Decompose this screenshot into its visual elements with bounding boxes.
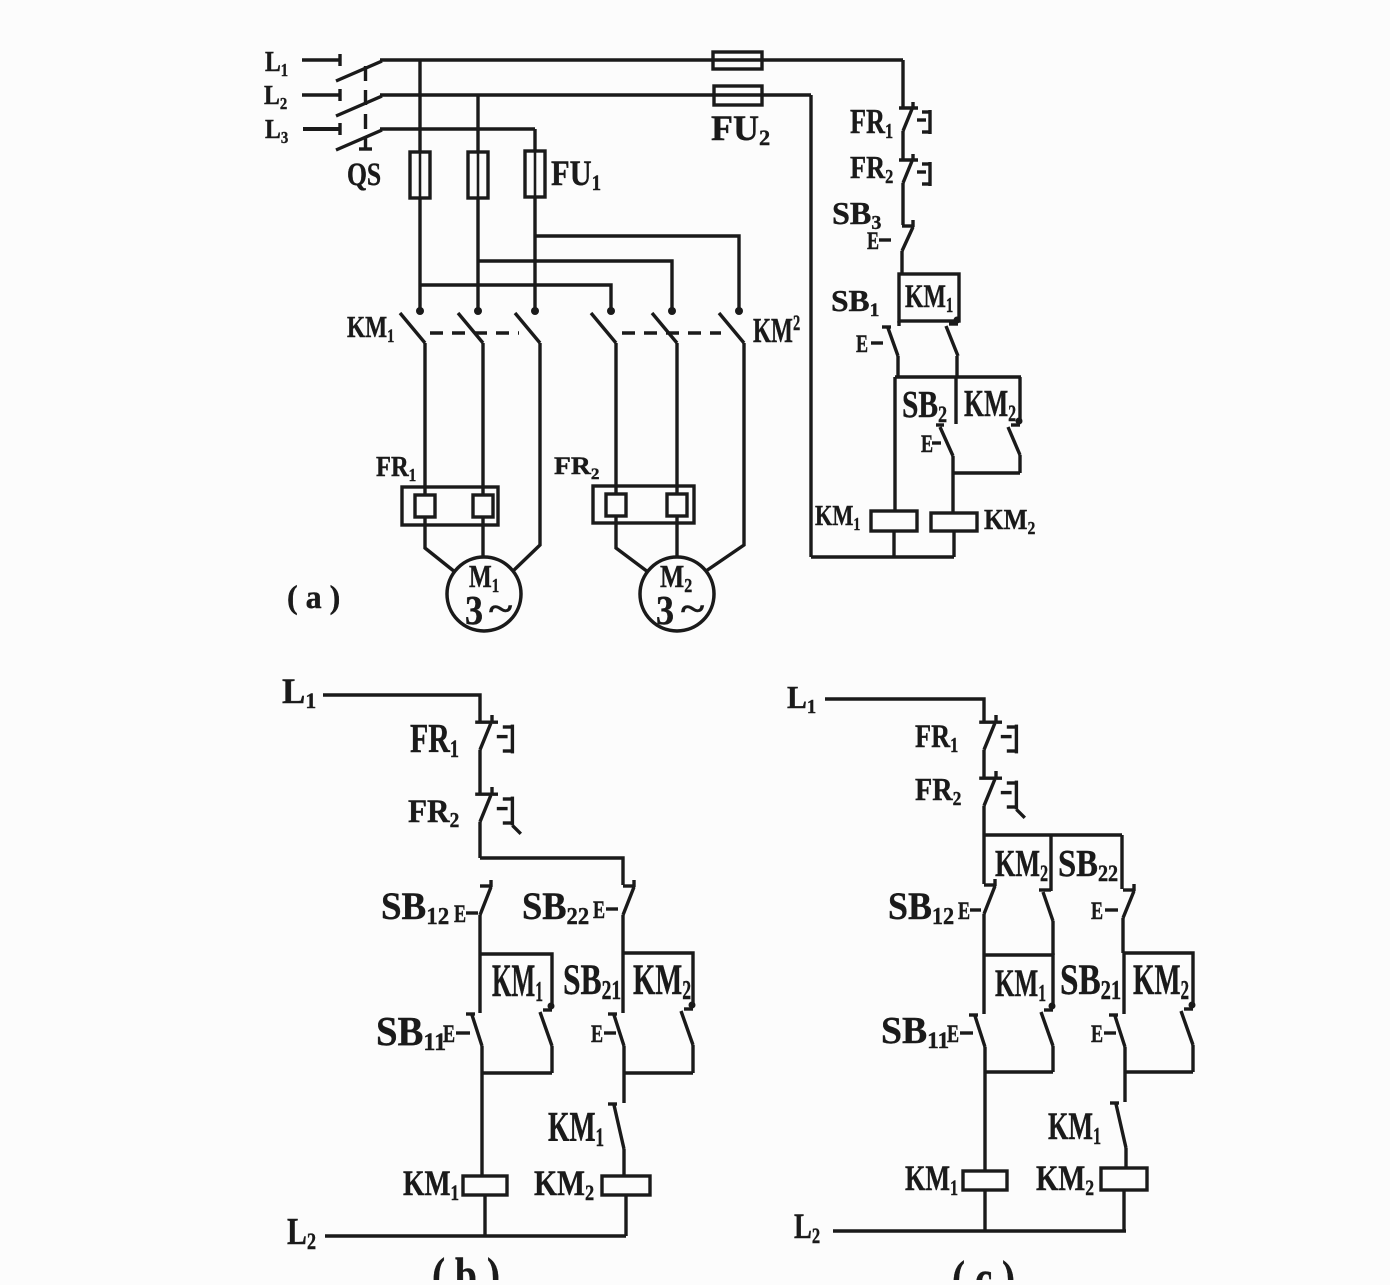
wire L1 (c)	[825, 699, 984, 721]
overload relay FR2 heater	[593, 486, 694, 523]
aux contact KM2 blade top (c)	[1039, 888, 1051, 891]
thermal contact FR1 (c)	[979, 721, 1002, 724]
svg-text:E: E	[591, 1019, 603, 1048]
aux box KM2 top divider (c)	[1049, 835, 1052, 891]
aux box KM1 (b)	[481, 954, 552, 1005]
switch QS blade L2	[336, 96, 382, 116]
wire to coil KM1	[893, 377, 896, 511]
aux contact KM2 blade (b)	[689, 1002, 696, 1009]
thermal contact FR1 (b)	[475, 721, 498, 724]
wire FR1 to M1 left	[425, 517, 455, 572]
svg-text:E: E	[856, 329, 868, 358]
svg-text:3: 3	[465, 589, 483, 634]
wire pole3 to KM1	[533, 197, 536, 309]
start button SB21 (c)	[1122, 953, 1125, 1014]
wire KM2 out3 bypass	[706, 343, 744, 571]
aux contact box KM1	[899, 274, 959, 321]
svg-text:3: 3	[656, 589, 674, 634]
wire KM2 out2	[675, 343, 678, 494]
aux box KM2 lower (c)	[1124, 953, 1193, 1004]
wire pole2 to KM1	[476, 198, 479, 309]
coil KM2	[931, 513, 977, 531]
wire	[478, 750, 481, 793]
wire L3 bus	[380, 127, 535, 130]
wire	[1123, 1047, 1126, 1102]
coil KM1 (c)	[963, 1171, 1007, 1190]
aux contact KM1 blade (c)	[1049, 1003, 1056, 1010]
fuse FU1 pole1	[410, 152, 430, 198]
svg-text:E: E	[947, 1019, 959, 1048]
contactor KM2 pole3	[735, 307, 743, 315]
thermal contact FR2 (b)	[475, 793, 498, 796]
fuse FU1 pole3	[525, 151, 545, 197]
interlock contact KM1 (c)	[1110, 1101, 1119, 1104]
wire	[897, 321, 900, 326]
wire phase B drop	[476, 95, 479, 152]
motor M2	[640, 557, 714, 631]
contactor KM1 pole1	[416, 307, 424, 315]
parallel box top line (c)	[984, 833, 1122, 836]
svg-text:~: ~	[681, 589, 704, 628]
wire	[896, 356, 899, 377]
start button SB21 (b)	[621, 953, 624, 1013]
wire rail (b) left	[480, 1046, 483, 1176]
thermal contact FR1 control	[899, 106, 918, 109]
switch QS blade L1	[336, 61, 382, 81]
node line below SB1	[895, 375, 1021, 378]
wire	[901, 131, 904, 159]
coil KM2 (c)	[1101, 1168, 1147, 1190]
aux box KM2 (b)	[623, 953, 693, 1004]
stop button SB12 (b)	[480, 884, 492, 887]
divider SB2 branch	[954, 377, 957, 424]
svg-text:E: E	[454, 899, 466, 928]
wire	[1124, 1148, 1127, 1168]
fuse FU2 lower	[714, 86, 762, 105]
stop button SB12 (c)	[982, 835, 985, 884]
contactor KM1 pole3	[531, 307, 539, 315]
wire rail (c) left	[983, 1047, 986, 1171]
wire KM1 out1	[423, 343, 426, 495]
wire L1 bus	[380, 58, 903, 61]
aux contact KM1 blade (b)	[548, 1003, 555, 1010]
wire	[478, 822, 481, 858]
start button SB2	[936, 423, 944, 426]
svg-text:E: E	[921, 429, 933, 458]
svg-text:E: E	[958, 896, 970, 925]
contactor KM2 pole2	[668, 307, 676, 315]
interlock contact KM1 (b)	[608, 1102, 617, 1105]
wire FR2 to M2 left	[616, 516, 648, 572]
svg-text:E: E	[1091, 1019, 1103, 1048]
svg-text:E: E	[1091, 896, 1103, 925]
wire branch phase B to KM2	[478, 261, 672, 309]
wire	[621, 915, 624, 953]
contactor KM2 pole1	[607, 307, 615, 315]
wire KM2 out1	[614, 343, 617, 494]
aux contact KM2 blade lower (c)	[1189, 1002, 1196, 1009]
wire phase C drop	[533, 129, 536, 151]
start button SB1	[882, 325, 891, 328]
wire control rail right top	[901, 60, 904, 107]
wire branch phase C to KM2	[535, 236, 739, 309]
thermal contact FR2 (c)	[979, 777, 1002, 780]
wire branch phase A to KM2	[420, 285, 611, 309]
start button SB11 (c)	[982, 955, 985, 1014]
box SB22 right edge (c)	[1120, 835, 1123, 889]
svg-text:~: ~	[489, 589, 512, 628]
stop button SB22 (b)	[623, 884, 635, 887]
stop button SB22 blade (c)	[1123, 888, 1135, 891]
svg-text:E: E	[593, 895, 605, 924]
wire	[478, 915, 481, 954]
contactor KM2 linkage	[622, 331, 721, 334]
wire L2 bus	[380, 93, 811, 96]
wire KM1 out3 bypass	[513, 343, 540, 571]
stop button SB3	[902, 224, 914, 227]
coil KM1	[871, 511, 917, 531]
wire L2 (c)	[833, 1229, 1126, 1232]
wire FR2 to M2 mid	[675, 516, 678, 558]
node branch line (b)	[480, 858, 623, 885]
svg-text:E: E	[443, 1019, 455, 1048]
thermal contact FR2 control	[899, 158, 918, 161]
wire	[982, 914, 985, 955]
wire	[982, 750, 985, 777]
aux contact KM1 blade	[954, 317, 961, 324]
svg-text:( b ): ( b )	[432, 1248, 500, 1280]
wire	[982, 806, 985, 835]
wire FR1 to M1 mid	[481, 517, 484, 558]
svg-text:E: E	[867, 226, 879, 255]
wire control bottom	[811, 555, 954, 558]
coil KM2 (b)	[602, 1176, 650, 1195]
contactor KM1 linkage	[430, 331, 519, 334]
svg-text:( a ): ( a )	[287, 579, 340, 616]
fuse FU2 upper	[713, 52, 762, 69]
contactor KM1 pole2	[474, 307, 482, 315]
wire KM1 out2	[481, 343, 484, 495]
wire pole1 to KM1	[418, 198, 421, 309]
svg-text:QS: QS	[347, 157, 381, 193]
wire SB2 to coil KM2	[951, 456, 954, 513]
wire	[900, 251, 903, 274]
overload relay FR1 heater	[402, 487, 498, 525]
wire L2 (b)	[325, 1234, 626, 1237]
wire L1 (b)	[323, 695, 480, 721]
wire control rail left	[809, 95, 812, 557]
wire phase A drop	[418, 60, 421, 152]
switch QS blade L3	[336, 130, 382, 150]
switch QS linkage	[364, 66, 367, 148]
wire	[622, 1149, 625, 1176]
motor M1	[447, 557, 521, 631]
start button SB11 (b)	[478, 954, 481, 1013]
fuse FU1 pole2	[468, 152, 488, 198]
wire	[622, 1046, 625, 1103]
wire	[901, 183, 904, 225]
svg-text:( c ): ( c )	[952, 1251, 1015, 1280]
aux contact box KM2	[1018, 377, 1021, 420]
aux box KM1 (c)	[984, 955, 1053, 1005]
coil KM1 (b)	[463, 1176, 507, 1195]
